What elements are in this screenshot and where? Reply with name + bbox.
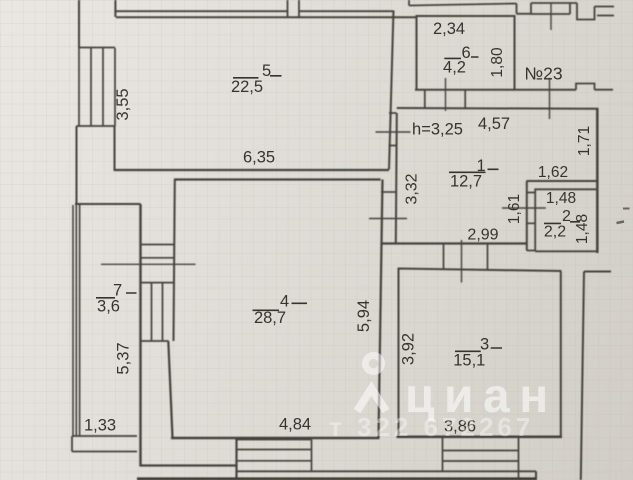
room 3 walls xyxy=(399,269,562,438)
svg-text:4,57: 4,57 xyxy=(478,115,510,133)
wall notch right of room6 xyxy=(576,84,613,90)
wall room7 top xyxy=(75,203,141,205)
wall corridor right xyxy=(581,272,611,480)
svg-text:2,34: 2,34 xyxy=(433,20,465,38)
room label 3 xyxy=(453,335,502,369)
window room7 left triple lines xyxy=(73,205,80,436)
svg-text:15,1: 15,1 xyxy=(453,351,485,369)
room label 5 xyxy=(231,62,282,96)
svg-text:1,71: 1,71 xyxy=(576,126,593,156)
wall cap room4-room1 xyxy=(381,191,396,193)
svg-text:h=3,25: h=3,25 xyxy=(412,120,463,138)
stair landing bottom line xyxy=(237,470,537,472)
tick long left xyxy=(101,263,196,265)
window W1 room 5 xyxy=(77,48,116,127)
wall outer bottom left xyxy=(140,438,237,480)
svg-text:1,48: 1,48 xyxy=(546,190,576,207)
dim h=3,25 xyxy=(412,120,463,138)
svg-text:3,55: 3,55 xyxy=(114,88,132,120)
wall room2 inner box xyxy=(527,189,597,251)
wall room1 left xyxy=(396,113,397,244)
door jog room5-room1 xyxy=(389,113,397,146)
wall room5 right xyxy=(389,11,394,170)
room label 6 xyxy=(443,44,478,76)
tick door room4-room1 xyxy=(369,218,407,220)
tick top right xyxy=(550,3,552,30)
wall outer left top xyxy=(78,0,80,48)
dim 5,94 xyxy=(355,300,373,332)
wall outer left middle xyxy=(76,126,78,204)
dim 2,99 xyxy=(467,226,498,243)
wall band above room6 xyxy=(409,0,531,14)
svg-text:5: 5 xyxy=(262,62,271,80)
svg-text:5,37: 5,37 xyxy=(114,342,132,374)
door stubs room6-room1 xyxy=(425,90,465,108)
svg-text:4: 4 xyxy=(280,292,289,310)
room label 4 xyxy=(253,292,308,327)
dim 3,32 xyxy=(404,173,421,204)
watermark cian logo pin xyxy=(362,352,385,375)
wall step bottom right xyxy=(535,471,537,480)
tick door room5-room1 xyxy=(376,131,411,133)
dim 1,48 right xyxy=(574,214,591,244)
wall room4 top xyxy=(174,178,381,180)
svg-text:4,84: 4,84 xyxy=(279,415,311,433)
wall room7 right stair left xyxy=(139,204,141,466)
room label 7 xyxy=(96,282,137,316)
svg-text:№23: №23 xyxy=(524,63,562,83)
dim 3,92 xyxy=(400,333,418,365)
wall room2 right xyxy=(596,109,599,253)
wall room5 top outer right part xyxy=(299,10,394,12)
dim 1,80 xyxy=(489,47,506,78)
svg-text:1,48: 1,48 xyxy=(574,214,591,244)
dim 6,35 xyxy=(243,149,275,167)
wall room4 right xyxy=(379,180,383,438)
svg-text:5,94: 5,94 xyxy=(355,300,373,332)
watermark cian text xyxy=(405,370,558,423)
room label 2 xyxy=(544,208,580,240)
leader line 4,2 xyxy=(445,78,447,111)
wall room5 top outer xyxy=(116,10,287,12)
stair treads xyxy=(141,245,175,342)
svg-text:1,80: 1,80 xyxy=(489,47,506,78)
svg-text:2,99: 2,99 xyxy=(467,226,498,243)
dim 2,34 xyxy=(433,20,465,38)
wall room2 top outer xyxy=(527,180,598,182)
wall room1 top xyxy=(397,107,599,110)
dim 3,86 xyxy=(444,417,476,435)
wall room1 bottom xyxy=(383,242,527,244)
door stubs room1-room3 xyxy=(444,244,488,270)
dim 1,33 xyxy=(84,416,116,434)
tick door room2 xyxy=(502,207,546,209)
svg-text:22,5: 22,5 xyxy=(231,78,263,96)
stairs bottom left xyxy=(237,440,312,472)
svg-text:1,62: 1,62 xyxy=(538,164,568,181)
wall bottom dark edge xyxy=(137,477,536,480)
room label 1 xyxy=(449,157,499,190)
dim 1,61 xyxy=(506,194,523,224)
dim 5,37 xyxy=(114,342,132,374)
wall room5 top inner xyxy=(116,16,417,18)
svg-text:1,61: 1,61 xyxy=(506,194,523,224)
svg-text:1,33: 1,33 xyxy=(84,416,116,434)
wall room5 left lower xyxy=(114,126,116,171)
wall room3 bottom xyxy=(397,435,563,438)
wall stair landing top right xyxy=(577,3,614,20)
wall room2 left outer xyxy=(526,181,528,251)
dim 4,84 xyxy=(279,415,311,433)
dim 4,57 xyxy=(478,115,510,133)
wall room4 left lower xyxy=(168,341,172,438)
door jogs room2 left xyxy=(527,193,535,224)
svg-text:6,35: 6,35 xyxy=(243,149,275,167)
svg-text:4,2: 4,2 xyxy=(443,58,466,76)
svg-text:3,32: 3,32 xyxy=(404,173,421,204)
wall stair column right xyxy=(174,180,175,342)
svg-text:12,7: 12,7 xyxy=(450,172,482,190)
dim 1,62 xyxy=(538,164,568,181)
wall room4 bottom xyxy=(171,437,380,439)
label no23 xyxy=(524,63,562,83)
room 6 walls xyxy=(415,16,576,90)
stairs bottom right xyxy=(443,438,519,480)
stair ladder rails xyxy=(152,283,163,341)
watermark phone xyxy=(329,412,534,442)
wall stub top middle xyxy=(288,0,300,17)
svg-text:3,92: 3,92 xyxy=(400,333,418,365)
wall room5 bottom xyxy=(115,169,390,171)
dim 1,48 top xyxy=(546,190,576,207)
svg-text:3,6: 3,6 xyxy=(97,297,120,315)
dim 1,71 xyxy=(576,126,593,156)
svg-text:28,7: 28,7 xyxy=(254,309,286,327)
wall room7 bottom band xyxy=(72,436,137,452)
svg-text:т 322 672267: т 322 672267 xyxy=(329,412,534,442)
pen mark right margin upper xyxy=(623,208,630,210)
watermark cian logo roof xyxy=(357,389,386,412)
dim 3,55 xyxy=(114,88,132,120)
tick door no23-room1 xyxy=(549,78,551,119)
svg-text:2,2: 2,2 xyxy=(544,223,566,240)
pen mark right margin lower xyxy=(617,222,625,224)
wall top right corridor xyxy=(531,3,577,14)
tick door room1-room3 xyxy=(461,240,463,283)
wall stub top at x115 xyxy=(114,0,116,17)
